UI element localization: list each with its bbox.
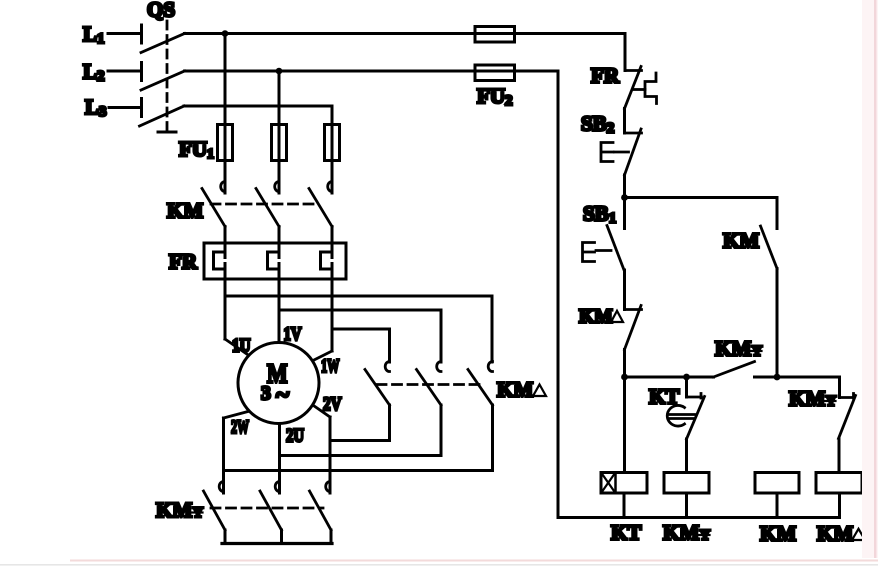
button SB2 NC xyxy=(601,129,642,175)
fuse FU1 b xyxy=(272,125,287,161)
svg-text:2W: 2W xyxy=(231,417,249,438)
svg-text:KM: KM xyxy=(715,337,751,361)
wire L2 bus xyxy=(185,70,559,73)
wire FR to SB2 xyxy=(623,109,626,134)
wire SB2 to node A xyxy=(623,175,626,198)
page bottom pink line xyxy=(70,560,878,562)
svg-text:2V: 2V xyxy=(323,394,342,415)
wire KMdelta2 bottom xyxy=(280,405,441,456)
wire 2U drop xyxy=(278,424,281,494)
svg-text:FR: FR xyxy=(169,250,198,274)
svg-text:L2: L2 xyxy=(83,60,105,85)
wire KMdelta1 bottom xyxy=(331,405,390,441)
wire L1 lead xyxy=(108,32,141,35)
wire KM1 to FR xyxy=(224,227,227,258)
coil KM xyxy=(755,473,799,494)
contact KM main pole 1 xyxy=(202,182,225,227)
wire 1W branch to KMdelta pole1 xyxy=(332,329,390,362)
contact KM NO selfhold xyxy=(761,198,778,378)
svg-text:L1: L1 xyxy=(83,22,105,47)
wire KM3 to FR xyxy=(331,227,334,258)
wire L3 lead xyxy=(109,106,141,109)
label KMdelta interlock xyxy=(579,307,623,328)
label KMdelta main xyxy=(497,378,546,402)
svg-text:KM: KM xyxy=(760,522,796,546)
contact KM main pole 3 xyxy=(309,182,332,227)
page bottom gray line xyxy=(0,564,878,566)
star point bar xyxy=(222,542,332,545)
junction node A xyxy=(621,194,628,201)
svg-text:1V: 1V xyxy=(284,324,302,345)
svg-text:FR: FR xyxy=(591,64,620,88)
svg-text:QS: QS xyxy=(147,0,175,22)
svg-text:~: ~ xyxy=(276,382,289,409)
stub 2V xyxy=(314,406,331,418)
time delay symbol xyxy=(667,405,694,426)
wire 1V drop xyxy=(278,264,281,344)
wire KMdelta coil to bus xyxy=(838,493,841,518)
wire phase A drop xyxy=(224,34,227,194)
wire phase C drop xyxy=(331,106,334,193)
KMY linkage dashed xyxy=(211,507,323,510)
fuse FU1 a xyxy=(218,125,233,161)
wire L1 bus xyxy=(185,32,626,35)
label coil KMdelta xyxy=(817,522,865,546)
svg-text:L3: L3 xyxy=(85,95,107,120)
switch QS pole 3 xyxy=(140,99,185,127)
contact KMY pole 1 xyxy=(204,482,226,544)
svg-text:SB1: SB1 xyxy=(583,202,616,227)
label coil KMY xyxy=(663,521,711,545)
svg-text:1W: 1W xyxy=(321,356,340,377)
label KMY main xyxy=(156,498,204,522)
svg-text:KM: KM xyxy=(789,387,825,411)
contact KM main pole 2 xyxy=(256,182,279,227)
wire KM2 to FR xyxy=(278,227,281,258)
contact KMdelta NC interlock xyxy=(625,306,642,350)
wire 1V branch to KMdelta pole2 xyxy=(279,310,441,362)
stub 2W xyxy=(224,412,249,419)
coil KMY xyxy=(664,473,709,494)
contact KMdelta pole 1 xyxy=(365,362,390,406)
wire 1U drop xyxy=(224,264,227,340)
contact FR NC xyxy=(625,67,657,109)
QS linkage dashed xyxy=(158,21,176,132)
stub 1W xyxy=(313,351,332,361)
junction KM coil branch xyxy=(774,374,781,381)
junction L1 drop xyxy=(222,30,229,37)
wire KMdelta3 bottom xyxy=(224,405,493,471)
svg-text:SB2: SB2 xyxy=(581,112,614,137)
fuse FU2 b xyxy=(475,65,515,81)
wire 2V drop xyxy=(329,417,332,493)
contact KMY pole 3 xyxy=(310,482,332,544)
wire 1W drop xyxy=(331,264,334,352)
svg-text:2U: 2U xyxy=(286,426,304,447)
svg-text:3: 3 xyxy=(261,384,271,405)
wire phase B drop xyxy=(278,71,281,193)
motor M circle xyxy=(238,343,319,424)
page right pink strip xyxy=(862,0,878,558)
wire node B right xyxy=(625,376,714,379)
KM main linkage dashed xyxy=(211,203,318,206)
button SB1 NO xyxy=(583,198,625,271)
label KMY NO xyxy=(715,337,763,361)
wire node A to KM branch xyxy=(625,196,778,199)
svg-text:KM: KM xyxy=(497,378,533,402)
contact KMY NC interlock xyxy=(839,377,856,473)
wire 1U branch to KMdelta pole3 xyxy=(225,296,492,362)
wire KT coil to bus xyxy=(623,493,626,518)
FR heater 2 xyxy=(268,252,280,269)
svg-text:KM: KM xyxy=(663,521,699,545)
contact KMY NO accelerate xyxy=(714,362,840,378)
switch QS pole 1 xyxy=(141,25,185,53)
wire L2 lead xyxy=(108,70,141,73)
junction L2 drop xyxy=(276,68,283,75)
contact KT NC delayed xyxy=(687,377,705,439)
wire KM coil to bus xyxy=(776,493,779,518)
svg-text:FU1: FU1 xyxy=(179,137,214,162)
wire KMY coil to bus xyxy=(685,493,688,518)
svg-text:FU2: FU2 xyxy=(477,84,513,109)
svg-text:1U: 1U xyxy=(232,336,251,357)
overload relay FR box xyxy=(204,243,346,279)
stub 1U xyxy=(225,339,249,356)
wire control line drop xyxy=(624,34,627,71)
FR heater 1 xyxy=(214,252,226,269)
fuse FU2 a xyxy=(475,27,515,43)
svg-text:KM: KM xyxy=(167,199,203,223)
label KMY NC xyxy=(789,387,837,411)
contact KMY pole 2 xyxy=(260,482,282,544)
wire 2W drop xyxy=(222,418,225,493)
FR heater 3 xyxy=(321,252,333,269)
svg-text:KM: KM xyxy=(156,498,192,522)
KMdelta linkage dashed xyxy=(377,383,481,386)
wire L3 bus xyxy=(184,105,332,108)
coil KMdelta xyxy=(816,473,862,494)
fuse FU1 c xyxy=(325,125,340,161)
switch QS pole 2 xyxy=(141,63,185,91)
coil KT xyxy=(601,473,647,494)
svg-text:KT: KT xyxy=(611,521,641,545)
junction KT branch xyxy=(683,374,690,381)
page right pink line xyxy=(874,0,877,558)
contact KMdelta pole 2 xyxy=(417,362,442,406)
wire KMdelta NC to node B xyxy=(623,350,626,378)
wire control neutral rail xyxy=(557,71,560,518)
contact KMdelta pole 3 xyxy=(468,362,493,406)
svg-text:KM: KM xyxy=(817,522,853,546)
wire SB1 to KMdelta NC xyxy=(623,270,626,310)
junction node B xyxy=(621,374,628,381)
wire node B to KT coil xyxy=(623,377,626,473)
svg-text:KM: KM xyxy=(723,229,759,253)
svg-text:KM: KM xyxy=(579,307,613,328)
wire KT contact to KMY coil xyxy=(685,439,688,473)
wire bottom bus xyxy=(558,516,840,519)
svg-text:KT: KT xyxy=(649,385,679,409)
